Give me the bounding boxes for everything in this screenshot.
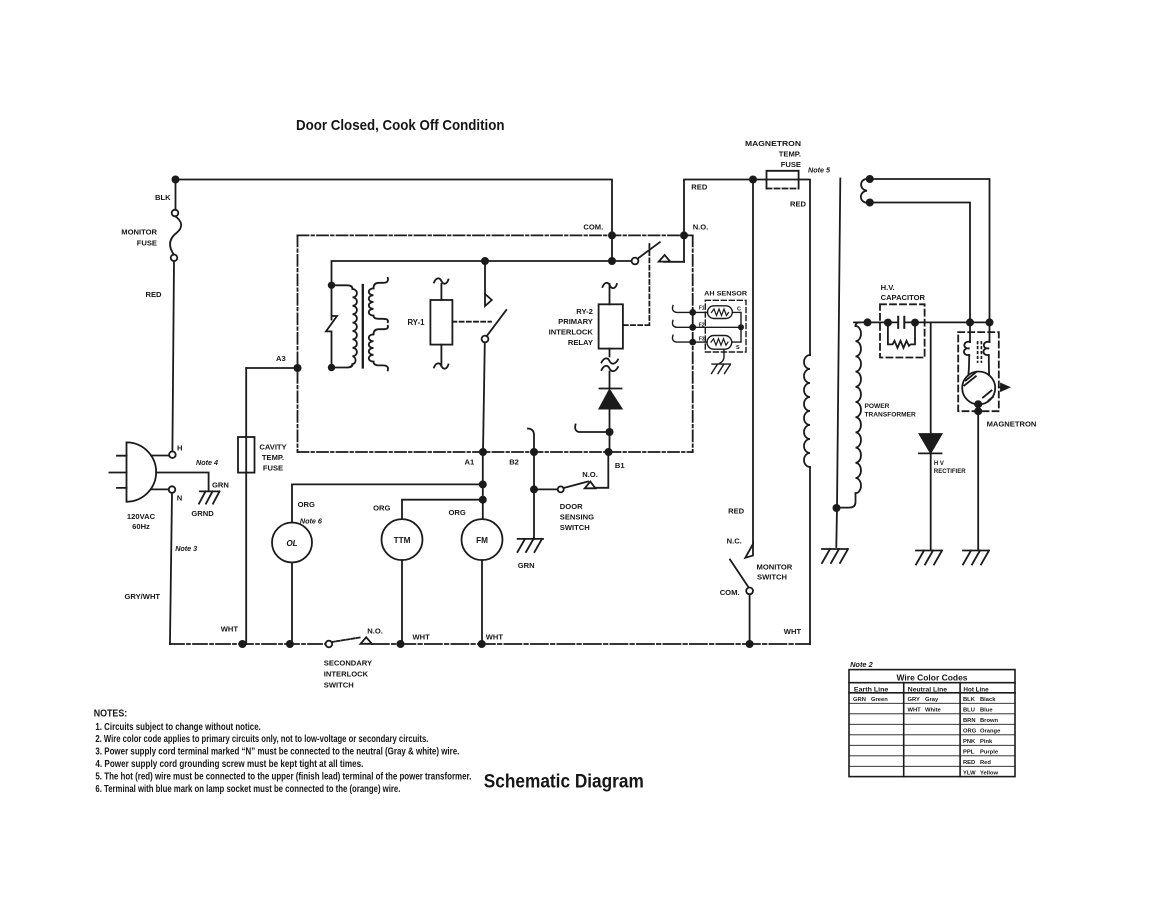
svg-text:NOTES:: NOTES: bbox=[94, 709, 128, 720]
wire inner control line bbox=[332, 261, 632, 285]
svg-text:H: H bbox=[177, 444, 182, 453]
svg-text:Hot Line: Hot Line bbox=[963, 686, 989, 693]
wire A3 bbox=[246, 367, 297, 369]
wire bottom rail right bbox=[372, 643, 810, 645]
svg-text:Orange: Orange bbox=[980, 729, 1001, 735]
svg-text:RED: RED bbox=[691, 183, 708, 192]
svg-text:RED: RED bbox=[963, 760, 975, 766]
svg-text:COM.: COM. bbox=[720, 588, 740, 597]
svg-text:PNK: PNK bbox=[963, 739, 976, 745]
wire B1 hook stub bbox=[575, 425, 609, 433]
svg-text:GRY: GRY bbox=[908, 697, 920, 703]
wire COM link bbox=[611, 235, 613, 261]
svg-text:5. The hot (red) wire must be: 5. The hot (red) wire must be connected … bbox=[95, 771, 471, 782]
table wire color codes bbox=[849, 670, 1015, 777]
svg-text:RECTIFIER: RECTIFIER bbox=[934, 469, 966, 475]
wire RED monitor fuse to plug H terminal bbox=[172, 261, 174, 451]
svg-text:RED: RED bbox=[146, 290, 163, 299]
node B2 bbox=[530, 448, 538, 456]
svg-text:Gray: Gray bbox=[925, 697, 939, 703]
svg-text:H.V.: H.V. bbox=[881, 283, 895, 292]
svg-text:Door Closed, Cook Off Conditio: Door Closed, Cook Off Condition bbox=[296, 118, 505, 134]
svg-text:OL: OL bbox=[286, 539, 297, 548]
node N.O. top bbox=[680, 231, 688, 239]
svg-text:N.C.: N.C. bbox=[727, 537, 742, 546]
svg-text:COM.: COM. bbox=[583, 223, 603, 232]
svg-text:H V: H V bbox=[934, 461, 944, 467]
svg-text:Purple: Purple bbox=[980, 750, 999, 756]
svg-text:S: S bbox=[736, 345, 740, 351]
transformer power primary coil bbox=[804, 355, 810, 467]
ground HV rectifier bbox=[916, 551, 942, 565]
switch RY-1 contact bbox=[482, 261, 507, 452]
svg-text:CAVITY: CAVITY bbox=[259, 443, 286, 452]
svg-text:A3: A3 bbox=[276, 354, 286, 363]
ground GRND at plug bbox=[199, 491, 220, 503]
node rail OL bbox=[286, 640, 294, 648]
svg-text:F1: F1 bbox=[699, 306, 705, 312]
svg-text:INTERLOCK: INTERLOCK bbox=[549, 328, 594, 337]
svg-text:3. Power supply cord terminal: 3. Power supply cord terminal marked “N”… bbox=[95, 747, 459, 758]
svg-text:WHT: WHT bbox=[413, 633, 431, 642]
notes block bbox=[94, 709, 472, 795]
magnetron bbox=[958, 318, 1009, 549]
svg-text:N.O.: N.O. bbox=[367, 627, 383, 636]
svg-text:TEMP.: TEMP. bbox=[779, 150, 801, 159]
svg-text:2. Wire color code applies to: 2. Wire color code applies to primary ci… bbox=[95, 734, 428, 745]
svg-text:ORG: ORG bbox=[963, 729, 977, 735]
svg-text:SWITCH: SWITCH bbox=[560, 523, 590, 532]
fuse monitor fuse F1 bbox=[170, 210, 181, 261]
svg-text:MAGNETRON: MAGNETRON bbox=[745, 139, 801, 148]
svg-text:BLK: BLK bbox=[155, 193, 171, 202]
ground door switch bbox=[518, 539, 544, 552]
svg-text:PPL: PPL bbox=[963, 750, 975, 756]
node B1 bbox=[605, 448, 613, 456]
sensor AH assembly bbox=[672, 300, 746, 363]
transformer T1 control bbox=[326, 278, 388, 371]
svg-text:Earth Line: Earth Line bbox=[854, 686, 889, 693]
svg-text:BLK: BLK bbox=[963, 697, 976, 703]
svg-text:SWITCH: SWITCH bbox=[757, 573, 787, 582]
svg-text:GRN: GRN bbox=[518, 561, 535, 570]
svg-text:RY-1: RY-1 bbox=[407, 318, 425, 327]
svg-text:GRN: GRN bbox=[212, 481, 229, 490]
svg-text:4. Power supply cord grounding: 4. Power supply cord grounding screw mus… bbox=[95, 759, 363, 770]
svg-text:60Hz: 60Hz bbox=[132, 522, 150, 531]
svg-text:N.O.: N.O. bbox=[582, 470, 598, 479]
svg-text:WHT: WHT bbox=[221, 625, 239, 634]
svg-text:ORG: ORG bbox=[373, 504, 390, 513]
switch secondary interlock bbox=[326, 637, 372, 647]
svg-text:6. Terminal with blue mark on: 6. Terminal with blue mark on lamp socke… bbox=[95, 784, 400, 795]
svg-text:White: White bbox=[925, 708, 942, 714]
svg-text:WHT: WHT bbox=[486, 633, 504, 642]
svg-text:F2: F2 bbox=[699, 322, 705, 328]
node HV bus left bbox=[864, 318, 872, 326]
svg-text:RELAY: RELAY bbox=[568, 338, 593, 347]
transformer power core line bbox=[836, 179, 840, 548]
node top-left junction bbox=[172, 176, 180, 184]
ground magnetron bbox=[963, 551, 989, 565]
svg-text:FUSE: FUSE bbox=[263, 464, 283, 473]
svg-text:Green: Green bbox=[871, 697, 888, 703]
svg-text:CAPACITOR: CAPACITOR bbox=[881, 293, 926, 302]
svg-text:A1: A1 bbox=[465, 458, 475, 467]
wire GRY/WHT neutral down bbox=[170, 493, 172, 644]
svg-text:AH SENSOR: AH SENSOR bbox=[704, 290, 748, 297]
wire HV bus bbox=[854, 321, 990, 323]
svg-text:FUSE: FUSE bbox=[781, 160, 801, 169]
svg-text:Yellow: Yellow bbox=[980, 771, 999, 777]
motor TTM turntable bbox=[382, 500, 479, 640]
svg-text:MONITOR: MONITOR bbox=[121, 228, 157, 237]
svg-text:INTERLOCK: INTERLOCK bbox=[324, 670, 369, 679]
svg-text:GRND: GRND bbox=[191, 509, 214, 518]
svg-text:FUSE: FUSE bbox=[137, 239, 157, 248]
svg-text:F3: F3 bbox=[699, 337, 705, 343]
svg-text:WHT: WHT bbox=[908, 708, 922, 714]
capacitor HV bbox=[880, 304, 925, 357]
svg-text:Note 4: Note 4 bbox=[196, 458, 218, 467]
svg-text:SECONDARY: SECONDARY bbox=[324, 659, 372, 668]
svg-text:Note 5: Note 5 bbox=[808, 166, 831, 175]
svg-text:Schematic Diagram: Schematic Diagram bbox=[484, 772, 644, 793]
motor OL oven lamp bbox=[272, 484, 479, 640]
svg-text:Red: Red bbox=[980, 760, 991, 766]
transformer filament winding bbox=[861, 175, 874, 207]
node rail FM bbox=[478, 640, 486, 648]
ground power transformer core bbox=[822, 549, 848, 563]
svg-text:TRANSFORMER: TRANSFORMER bbox=[865, 412, 917, 419]
svg-text:N.O.: N.O. bbox=[693, 223, 709, 232]
wire top main hot bbox=[176, 180, 613, 236]
svg-text:Blue: Blue bbox=[980, 708, 993, 714]
svg-text:WHT: WHT bbox=[784, 627, 802, 636]
node OL tap bbox=[479, 480, 487, 488]
svg-text:120VAC: 120VAC bbox=[127, 512, 156, 521]
svg-text:RED: RED bbox=[728, 507, 745, 516]
svg-text:POWER: POWER bbox=[865, 403, 890, 410]
switch door sensing bbox=[534, 452, 608, 492]
wire primary coil bottom bbox=[809, 467, 811, 644]
interlock boundary dash-dot box bbox=[298, 235, 693, 452]
svg-text:RY-2: RY-2 bbox=[576, 307, 593, 316]
svg-text:SENSING: SENSING bbox=[560, 513, 594, 522]
wire bottom rail left bbox=[170, 643, 326, 645]
svg-text:MONITOR: MONITOR bbox=[757, 563, 793, 572]
switch monitor bbox=[730, 180, 753, 645]
svg-text:PRIMARY: PRIMARY bbox=[558, 317, 593, 326]
wire door switch to ground bbox=[533, 489, 535, 539]
svg-text:TEMP.: TEMP. bbox=[262, 453, 284, 462]
ground AH sensor bbox=[712, 364, 731, 373]
svg-text:MAGNETRON: MAGNETRON bbox=[987, 419, 1037, 428]
wire fuse to transformer primary bbox=[799, 180, 810, 356]
transformer power HV secondary coil bbox=[837, 322, 862, 507]
relay RY-2 coil bbox=[599, 283, 623, 388]
svg-text:BRN: BRN bbox=[963, 718, 976, 724]
node rail cavity fuse bbox=[238, 640, 246, 648]
svg-text:1. Circuits subject to change: 1. Circuits subject to change without no… bbox=[95, 722, 261, 733]
svg-text:Note 6: Note 6 bbox=[300, 517, 323, 526]
node B1 junction upper bbox=[606, 428, 614, 436]
svg-text:ORG: ORG bbox=[298, 500, 315, 509]
node monitor bottom bbox=[746, 640, 754, 648]
svg-text:TTM: TTM bbox=[394, 536, 411, 545]
diode CR1 bbox=[600, 389, 622, 433]
node A1 bbox=[479, 448, 487, 456]
svg-text:B2: B2 bbox=[509, 458, 519, 467]
wire BLK stub bbox=[175, 180, 177, 210]
wire filament bottom to magnetron bbox=[870, 203, 970, 323]
node inner COM tap bbox=[608, 257, 616, 265]
node fuse tap bbox=[749, 176, 757, 184]
svg-text:FM: FM bbox=[476, 536, 488, 545]
node door switch junction bbox=[530, 485, 538, 493]
motor FM fan bbox=[462, 452, 503, 640]
svg-text:B1: B1 bbox=[615, 461, 625, 470]
node core secondary junction bbox=[833, 504, 841, 512]
node TTM tap bbox=[479, 496, 487, 504]
wire N.O. to magnetron fuse bbox=[684, 180, 767, 236]
wire RY-2 dashed link bbox=[623, 244, 650, 325]
svg-text:SWITCH: SWITCH bbox=[324, 681, 354, 690]
wire B2 hook stub bbox=[528, 429, 534, 453]
wire RY-1 dashed link bbox=[452, 321, 491, 323]
wire filament top to magnetron bbox=[870, 179, 990, 322]
plug 120VAC 60Hz bbox=[109, 442, 175, 501]
fuse magnetron temp bbox=[767, 171, 799, 189]
svg-text:Brown: Brown bbox=[980, 718, 998, 724]
node rail TTM bbox=[397, 640, 405, 648]
switch RY-2 contact top bbox=[632, 235, 684, 264]
svg-text:Neutral Line: Neutral Line bbox=[908, 686, 947, 693]
relay RY-1 coil bbox=[430, 278, 452, 368]
fuse cavity temp bbox=[238, 368, 255, 644]
svg-text:N: N bbox=[177, 493, 182, 502]
wire GRN from plug bbox=[156, 473, 208, 492]
node A3 bbox=[294, 364, 302, 372]
node COM bbox=[608, 231, 616, 239]
svg-text:C: C bbox=[737, 306, 741, 312]
svg-text:GRN: GRN bbox=[853, 697, 866, 703]
svg-text:Pink: Pink bbox=[980, 739, 993, 745]
svg-text:GRY/WHT: GRY/WHT bbox=[125, 592, 161, 601]
svg-text:RED: RED bbox=[790, 200, 807, 209]
svg-text:Wire Color Codes: Wire Color Codes bbox=[897, 673, 968, 683]
rectifier HV bbox=[919, 322, 942, 549]
node inner RY-1 switch tap bbox=[481, 257, 489, 265]
wire B1 drop bbox=[609, 432, 611, 452]
svg-text:Black: Black bbox=[980, 697, 996, 703]
svg-text:Note 3: Note 3 bbox=[175, 544, 197, 553]
svg-text:ORG: ORG bbox=[449, 508, 466, 517]
svg-text:YLW: YLW bbox=[963, 771, 976, 777]
svg-text:Note 2: Note 2 bbox=[850, 660, 873, 669]
wire B2 down bbox=[533, 452, 535, 489]
svg-text:BLU: BLU bbox=[963, 708, 975, 714]
svg-text:DOOR: DOOR bbox=[560, 502, 583, 511]
